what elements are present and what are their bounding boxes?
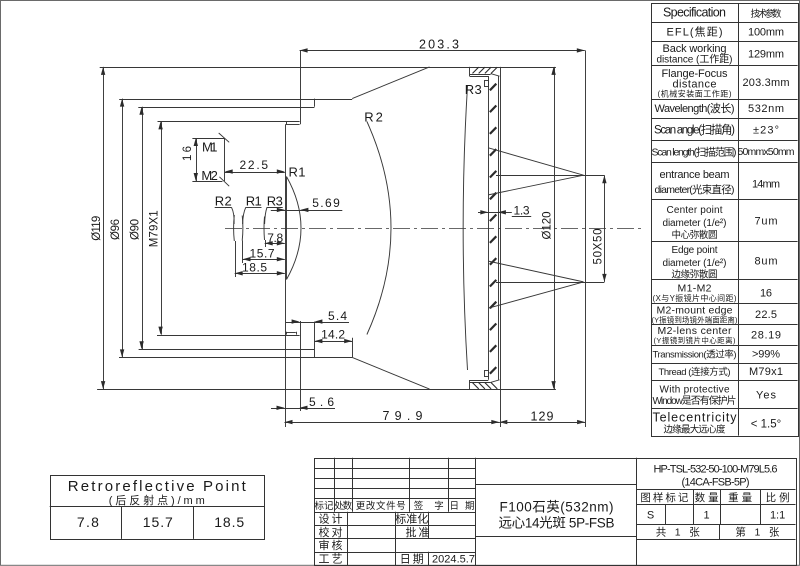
svg-text:7um: 7um — [755, 216, 778, 228]
svg-text:entrance beam: entrance beam — [660, 169, 730, 181]
dimension O119 — [103, 67, 105, 389]
svg-text:共 1 张: 共 1 张 — [656, 527, 701, 539]
svg-text:50X50: 50X50 — [593, 229, 605, 265]
svg-text:1.3: 1.3 — [514, 203, 530, 217]
spec row entrance beam diameter — [655, 169, 781, 196]
top clamp ring hatched — [470, 67, 500, 77]
spec row Center point diameter — [663, 205, 778, 241]
svg-text:R1: R1 — [246, 193, 262, 208]
spec row EFL — [667, 26, 785, 39]
spec row Specification — [663, 6, 782, 20]
flange top edge (O96) — [119, 99, 352, 101]
svg-text:50mmx50mm: 50mmx50mm — [738, 146, 795, 158]
svg-text:(Y振镜到镜片中心距离): (Y振镜到镜片中心距离) — [654, 335, 737, 345]
svg-text:16: 16 — [760, 288, 772, 300]
dimension 5.69 — [271, 210, 343, 212]
svg-text:100mm: 100mm — [748, 27, 784, 39]
svg-text:标准化: 标准化 — [395, 512, 428, 526]
housing outer bottom edge — [97, 389, 556, 391]
mirror plane M1 — [192, 138, 224, 140]
dimension 79.9 — [285, 422, 500, 424]
svg-text:532nm: 532nm — [748, 103, 784, 115]
small square detail marker — [485, 81, 489, 87]
spec row Scan angle — [654, 122, 779, 136]
dimension O120 — [554, 67, 556, 389]
title row 审核 — [319, 538, 343, 552]
svg-text:2024.5.7: 2024.5.7 — [432, 554, 475, 566]
svg-text:18.5: 18.5 — [214, 514, 244, 530]
title row 校对 / 批准 — [319, 525, 430, 539]
svg-text:Center point: Center point — [667, 205, 723, 216]
svg-text:Edge point: Edge point — [672, 245, 718, 256]
svg-text:R3: R3 — [465, 82, 482, 97]
beam focus extension top — [496, 175, 604, 177]
specification table frame — [651, 3, 798, 436]
svg-text:129mm: 129mm — [748, 49, 784, 61]
lens surface R1 vertex arc — [287, 177, 302, 280]
spec row M2-mount edge — [652, 304, 778, 324]
spec row Thread — [659, 366, 784, 378]
lens vertex plane vertical — [285, 124, 287, 427]
svg-text:Ø90: Ø90 — [130, 219, 142, 240]
title row 设计 / 标准化 — [319, 512, 429, 526]
step top edge (O90) — [138, 107, 314, 109]
svg-text:EFL(焦距): EFL(焦距) — [667, 26, 723, 39]
step vertical bottom (O96/O90) — [314, 322, 316, 358]
dimension 1.3 window thickness — [478, 212, 512, 214]
mirror M2 slash — [219, 177, 229, 186]
svg-text:15.7: 15.7 — [143, 514, 173, 530]
svg-text:203.3mm: 203.3mm — [743, 77, 790, 89]
flange face vertical bottom — [300, 321, 302, 411]
dimension M79X1 — [161, 121, 163, 334]
svg-text:With protective: With protective — [660, 384, 730, 395]
spec row Back working distance — [657, 43, 785, 66]
svg-text:7.8: 7.8 — [77, 514, 99, 530]
svg-text:S: S — [647, 510, 654, 522]
svg-text:diameter (1/e²): diameter (1/e²) — [663, 218, 727, 229]
dimension 203.3 — [300, 50, 585, 52]
title block frame — [314, 458, 796, 566]
svg-text:第 1 张: 第 1 张 — [735, 526, 780, 539]
dimension 14.2 — [314, 341, 352, 343]
title row 工艺 / 日期 / 2024.5.7 — [319, 553, 476, 566]
dimension 50X50 — [604, 175, 606, 282]
svg-text:Window是否有保护片: Window是否有保护片 — [653, 394, 737, 407]
svg-text:更改文件号: 更改文件号 — [356, 500, 406, 512]
svg-text:Scan length(扫描范围): Scan length(扫描范围) — [652, 145, 737, 158]
retaining notch top — [286, 124, 300, 126]
dimension O96 — [122, 99, 124, 358]
beam ray 2 — [488, 175, 583, 195]
svg-text:5.4: 5.4 — [328, 309, 347, 323]
near-axis surface R2 — [233, 215, 236, 241]
svg-text:M1-M2: M1-M2 — [678, 282, 712, 294]
beam ray 4 — [488, 282, 583, 308]
svg-text:8um: 8um — [755, 256, 778, 268]
dimension 5.4 — [286, 322, 349, 324]
lens rear edge vertical — [286, 177, 288, 280]
svg-text:129: 129 — [531, 409, 554, 423]
svg-text:1:1: 1:1 — [770, 510, 785, 522]
svg-text:(机械安装面工作距): (机械安装面工作距) — [658, 88, 732, 98]
svg-text:F100石英(532nm): F100石英(532nm) — [500, 499, 614, 515]
svg-text:Yes: Yes — [756, 390, 777, 402]
svg-text:1: 1 — [704, 510, 710, 522]
svg-text:diameter(光束直径): diameter(光束直径) — [655, 183, 735, 196]
svg-text:远心14光斑 5P-FSB: 远心14光斑 5P-FSB — [499, 516, 615, 531]
svg-text:技术参数: 技术参数 — [751, 8, 782, 20]
svg-text:Scan angle(扫描角): Scan angle(扫描角) — [654, 122, 735, 136]
svg-text:标记: 标记 — [315, 500, 334, 512]
svg-text:图样标记: 图样标记 — [640, 491, 689, 504]
dimension 16 (M1-M2) — [196, 138, 198, 181]
focal plane extension — [585, 50, 587, 427]
svg-text:Retroreflective Point: Retroreflective Point — [68, 478, 247, 495]
svg-text:日 期: 日 期 — [450, 501, 475, 512]
svg-text:28.19: 28.19 — [751, 330, 781, 342]
svg-text:R1: R1 — [289, 164, 306, 179]
bore top edge (M79 thread) — [158, 121, 300, 123]
svg-text:18.5: 18.5 — [242, 261, 267, 275]
near-axis surface R3 — [263, 217, 266, 241]
svg-text:(Y振镜到场镜外端面距离): (Y振镜到场镜外端面距离) — [652, 314, 739, 324]
title center product name box — [476, 458, 637, 565]
svg-text:14.2: 14.2 — [321, 328, 345, 342]
svg-text:处数: 处数 — [334, 500, 352, 512]
spec row Edge point diameter — [663, 245, 778, 281]
svg-text:Transmission(透过率): Transmission(透过率) — [653, 348, 737, 360]
svg-text:203.3: 203.3 — [419, 38, 459, 52]
svg-text:distance (工作距): distance (工作距) — [657, 54, 733, 66]
housing outer top edge — [100, 67, 556, 69]
svg-text:±23°: ±23° — [753, 124, 779, 136]
centerline optical axis — [225, 228, 645, 230]
window glass right edge — [498, 76, 500, 380]
svg-text:签 字: 签 字 — [414, 500, 444, 512]
svg-text:边缘最大远心度: 边缘最大远心度 — [664, 423, 726, 435]
dimension O90 — [142, 107, 144, 349]
svg-text:5.69: 5.69 — [312, 196, 340, 210]
window glass left edge — [488, 76, 490, 380]
svg-text:< 1.5°: < 1.5° — [751, 419, 782, 431]
svg-text:Back working: Back working — [663, 43, 727, 55]
svg-text:Wavelength(波长): Wavelength(波长) — [655, 102, 735, 115]
flange bottom edge (O96) — [119, 357, 352, 359]
svg-text:22.5: 22.5 — [240, 158, 269, 172]
dimension 129 — [499, 420, 507, 424]
svg-text:(后反射点)/mm: (后反射点)/mm — [109, 493, 205, 507]
svg-text:>99%: >99% — [752, 349, 780, 361]
svg-text:7.8: 7.8 — [267, 231, 283, 245]
svg-text:M79X1: M79X1 — [149, 210, 161, 247]
spec row Scan length — [652, 145, 795, 158]
beam ray 1 — [488, 148, 583, 175]
step vertical top (O96/O90) — [314, 99, 316, 107]
bottom taper diagonal — [352, 357, 429, 389]
svg-text:22.5: 22.5 — [755, 309, 777, 321]
beam focus extension bottom — [496, 282, 604, 284]
step bottom edge (O90) — [139, 349, 315, 351]
svg-text:Ø119: Ø119 — [91, 216, 103, 241]
svg-text:Telecentricity: Telecentricity — [653, 411, 738, 425]
svg-text:M1: M1 — [202, 140, 218, 155]
dimension 5.6 — [271, 408, 335, 410]
svg-text:中心弥散圆: 中心弥散圆 — [672, 229, 718, 241]
svg-text:边缘弥散圆: 边缘弥散圆 — [672, 269, 718, 281]
svg-text:(14CA-FSB-5P): (14CA-FSB-5P) — [682, 477, 750, 489]
svg-text:Thread (连接方式): Thread (连接方式) — [659, 366, 731, 378]
dimension 18.5 — [235, 273, 285, 275]
dimension 22.5 — [225, 172, 285, 174]
svg-text:R2: R2 — [364, 109, 383, 124]
title part number HP-TSL-532-50-100-M79L5.6 — [654, 464, 778, 489]
svg-text:HP-TSL-532-50-100-M79L5.6: HP-TSL-532-50-100-M79L5.6 — [654, 464, 778, 476]
svg-text:Ø120: Ø120 — [542, 212, 554, 240]
top taper diagonal — [352, 67, 429, 99]
beam ray 3 — [488, 261, 583, 282]
retroreflective point table — [50, 476, 265, 540]
mirror plane M2 — [192, 181, 222, 183]
svg-text:M79x1: M79x1 — [749, 366, 783, 378]
svg-text:15.7: 15.7 — [250, 247, 275, 261]
svg-text:Specification: Specification — [663, 6, 726, 20]
dimension 15.7 — [243, 259, 285, 261]
spec row M2-lens center — [654, 325, 782, 345]
spec row Flange-Focus distance — [658, 68, 790, 98]
mirror M1 slash — [219, 133, 230, 142]
retaining notch bottom — [286, 332, 296, 334]
svg-text:R3: R3 — [267, 193, 283, 208]
window glass hatch — [490, 84, 496, 374]
spec row M1-M2 — [653, 282, 773, 303]
svg-text:M2: M2 — [201, 168, 218, 183]
near-axis surface R1 — [241, 216, 244, 241]
svg-text:diameter (1/e²): diameter (1/e²) — [663, 258, 727, 269]
svg-text:5.6: 5.6 — [309, 395, 334, 409]
flange end extension vertical — [352, 338, 354, 358]
svg-text:14mm: 14mm — [752, 179, 780, 191]
lens surface R2 large arc — [367, 122, 391, 335]
flange face vertical top — [300, 50, 302, 124]
small square detail marker bottom — [485, 371, 489, 377]
spec row Telecentricity — [653, 411, 782, 436]
lens surface R3 large arc — [463, 86, 467, 370]
svg-text:Ø96: Ø96 — [110, 219, 122, 240]
svg-text:(X与Y振镜片中心间距): (X与Y振镜片中心间距) — [653, 293, 737, 303]
spec row Wavelength — [655, 102, 785, 115]
window mount right edge — [500, 67, 502, 427]
bottom clamp ring hatched — [470, 380, 500, 389]
dimension 7.8 — [265, 243, 285, 245]
bore bottom edge (M79 thread) — [157, 335, 300, 337]
svg-text:R2: R2 — [215, 193, 232, 208]
spec row With protective Window — [653, 384, 777, 407]
spec row Transmission — [653, 348, 781, 360]
mirror box right edge — [224, 138, 226, 181]
title header cells 标记 处数 更改文件号 签字 日期 — [315, 500, 475, 512]
title right grid 图样标记 数量 重量 比例 — [636, 489, 796, 539]
